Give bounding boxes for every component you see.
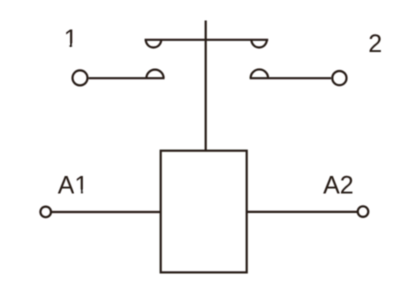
wire: coil lead A1 — [51, 211, 161, 213]
terminal circle: pole 2 — [332, 71, 346, 85]
label: coil terminal A1 — [58, 171, 89, 199]
svg-text:2: 2 — [368, 30, 382, 58]
svg-text:1: 1 — [64, 25, 78, 53]
svg-text:A2: A2 — [323, 171, 354, 199]
contact: left moving contact half-moon (bump above line) — [146, 70, 163, 79]
terminal circle: pole 1 — [73, 70, 88, 85]
label: terminal 1 — [63, 25, 78, 53]
terminal circle: A2 — [358, 206, 369, 217]
coil K1: rectangle body — [161, 151, 247, 273]
wire: center vertical actuator line — [205, 21, 207, 151]
contact: right fixed contact half-moon (hanging below bar) — [251, 40, 266, 48]
wire: coil lead A2 — [247, 211, 358, 213]
contact: right moving contact half-moon (bump above line) — [251, 69, 269, 78]
terminal circle: A1 — [40, 207, 51, 218]
wire: left moving contact line (terminal 1) — [89, 77, 165, 79]
wire: right moving contact line (terminal 2) — [250, 77, 332, 79]
svg-text:A1: A1 — [58, 171, 89, 199]
contact: left fixed contact half-moon (hanging below bar) — [146, 40, 161, 48]
wire: top fixed-contact bar — [145, 39, 269, 41]
